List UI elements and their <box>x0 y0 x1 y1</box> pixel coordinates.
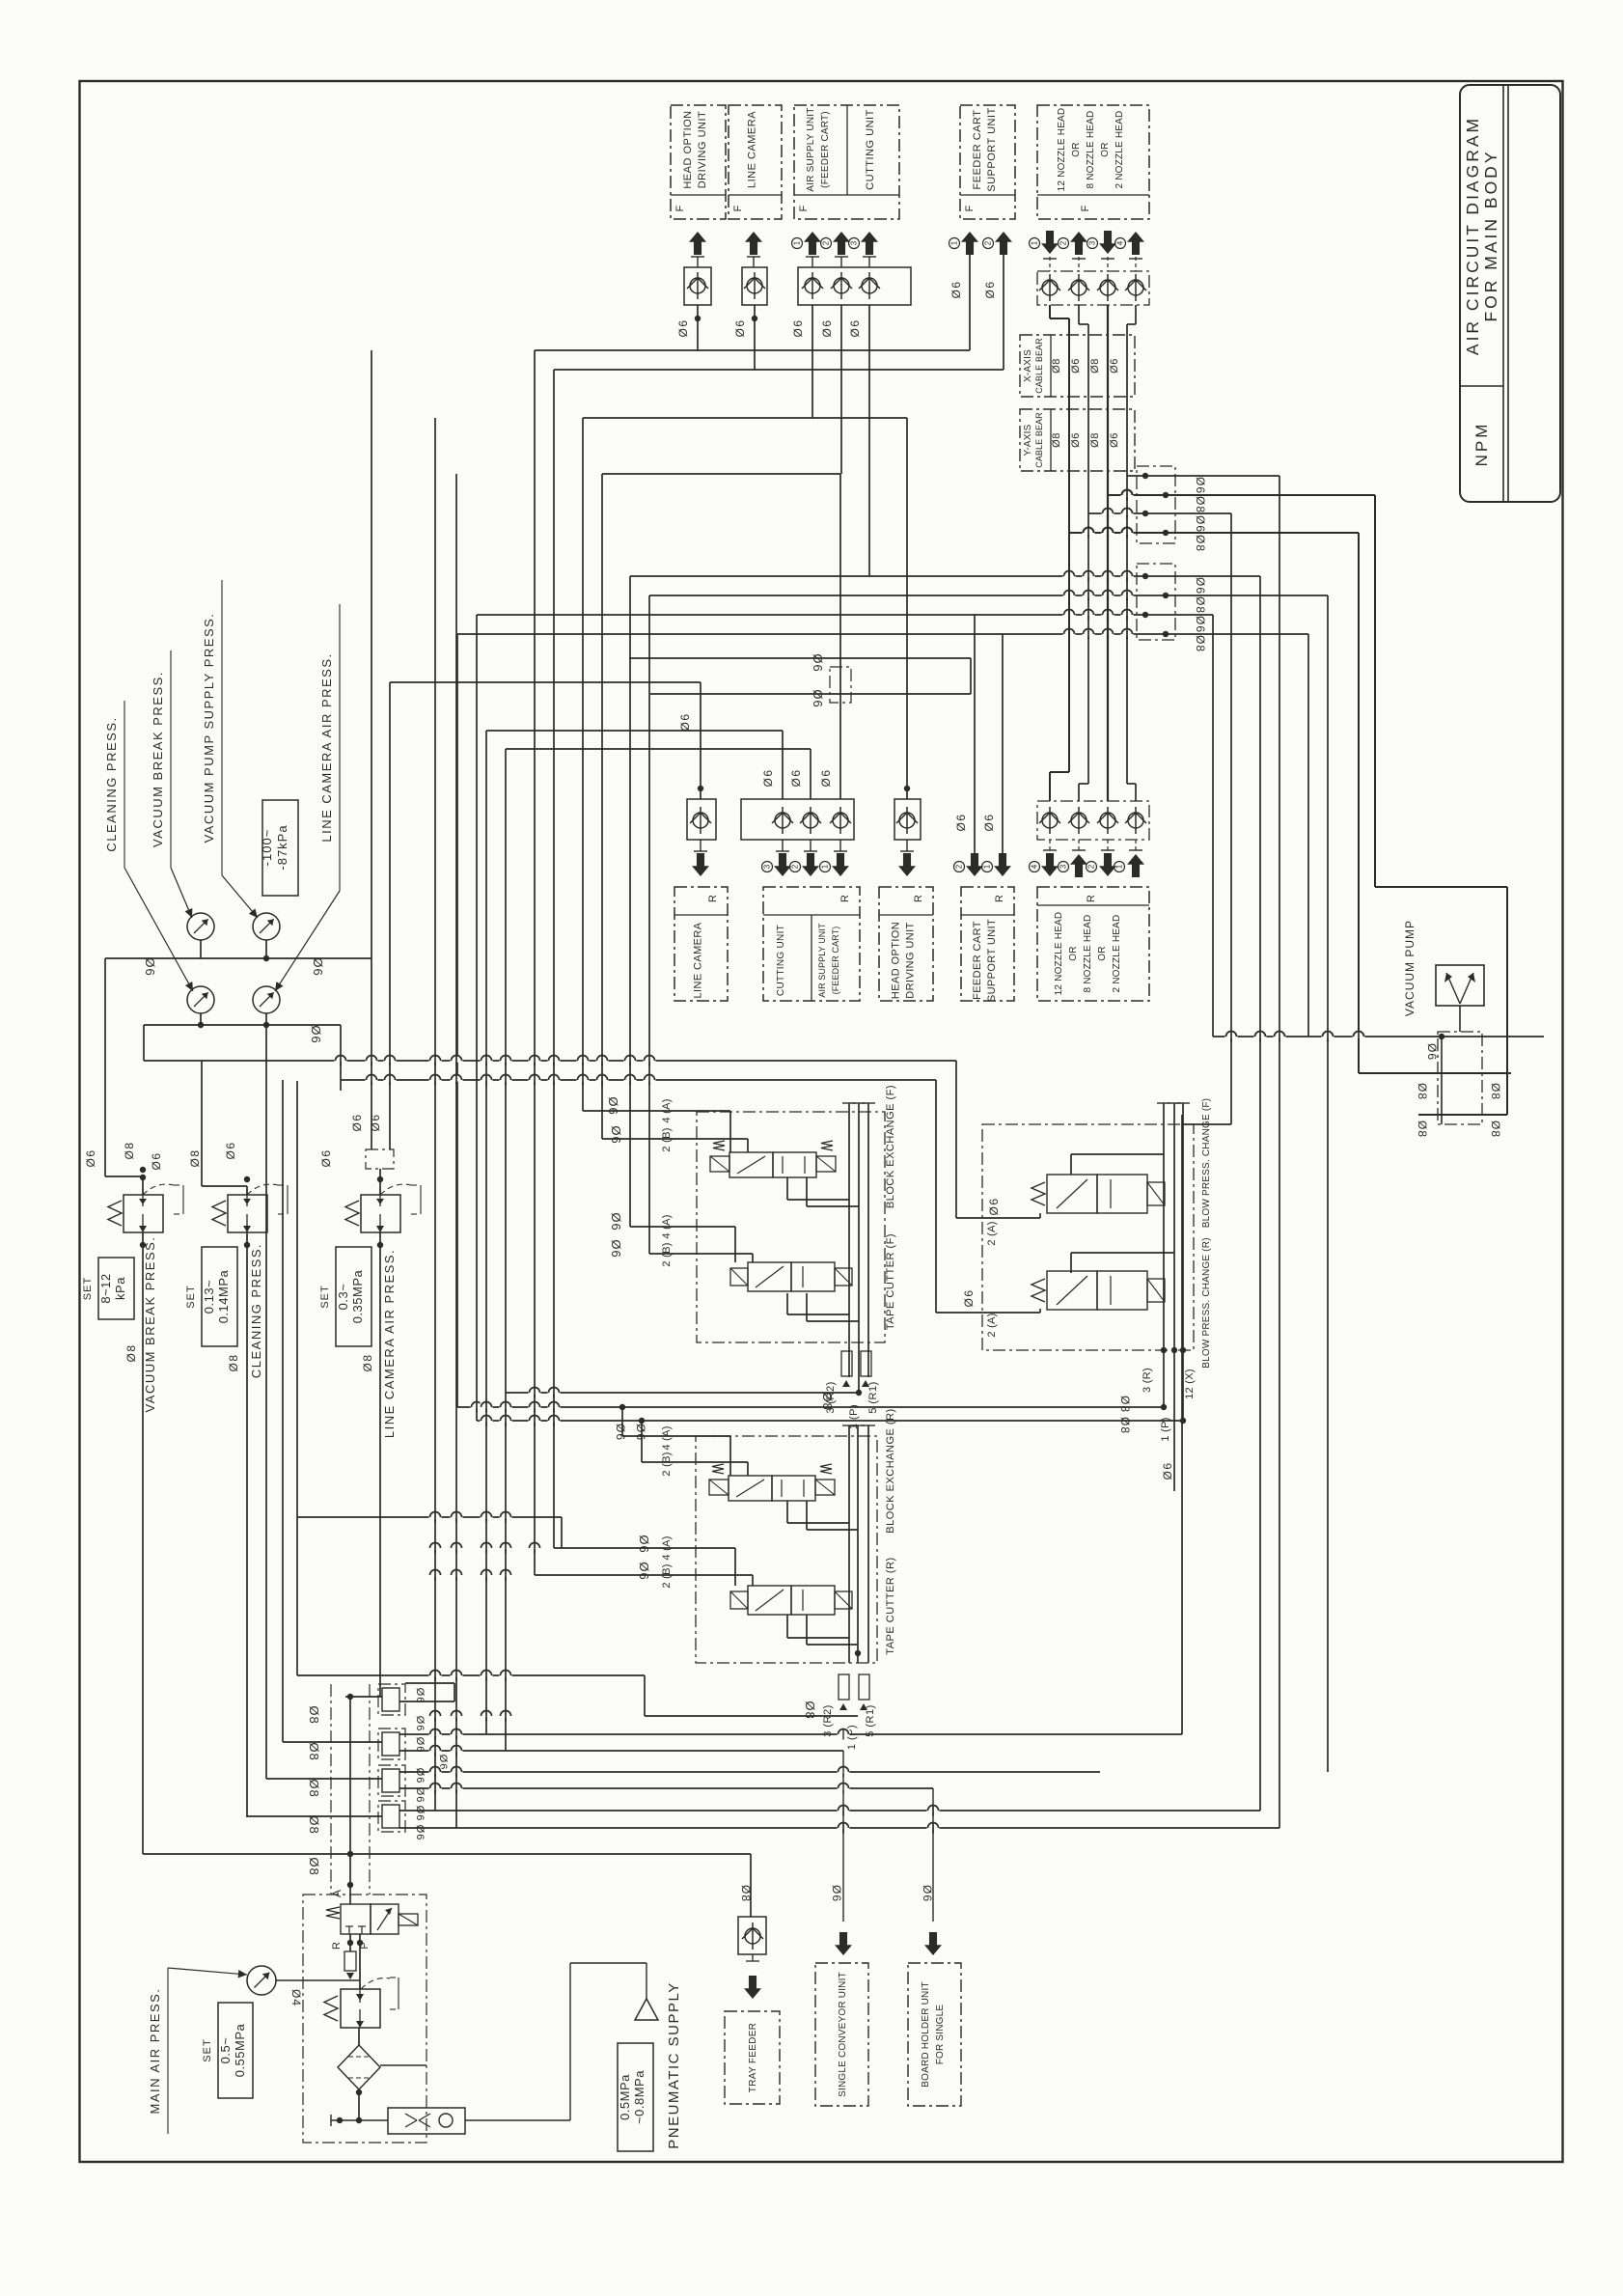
svg-text:DRIVING UNIT: DRIVING UNIT <box>905 922 917 998</box>
svg-text:Ø6: Ø6 <box>369 1113 382 1131</box>
svg-text:Ø6: Ø6 <box>1194 577 1207 595</box>
svg-text:R: R <box>1086 895 1097 902</box>
svg-text:Ø6: Ø6 <box>350 1113 364 1131</box>
svg-text:Ø6: Ø6 <box>414 1825 426 1841</box>
svg-text:VACUUM BREAK PRESS.: VACUUM BREAK PRESS. <box>143 1236 157 1413</box>
svg-text:Ø6: Ø6 <box>761 768 775 787</box>
svg-text:Ø8: Ø8 <box>739 1885 753 1902</box>
svg-text:Ø6: Ø6 <box>1194 515 1207 533</box>
svg-text:Ø8: Ø8 <box>1089 358 1101 373</box>
svg-text:BOARD HOLDER UNIT: BOARD HOLDER UNIT <box>921 1981 931 2088</box>
svg-text:2: 2 <box>791 864 800 869</box>
svg-text:SET: SET <box>202 2038 213 2061</box>
svg-text:12 (X): 12 (X) <box>1184 1369 1196 1399</box>
svg-text:4 (A): 4 (A) <box>661 1214 673 1238</box>
svg-text:F: F <box>674 205 686 211</box>
svg-text:Ø6: Ø6 <box>414 1768 426 1784</box>
svg-text:Ø6: Ø6 <box>987 1197 1001 1215</box>
svg-text:OR: OR <box>1100 142 1111 156</box>
svg-text:CABLE BEAR: CABLE BEAR <box>1034 412 1044 468</box>
svg-text:Ø8: Ø8 <box>1118 1396 1132 1413</box>
svg-text:Ø8: Ø8 <box>1051 432 1062 448</box>
svg-text:Ø8: Ø8 <box>307 1815 321 1834</box>
svg-text:Ø8: Ø8 <box>123 1141 136 1159</box>
svg-text:0.55MPa: 0.55MPa <box>233 2023 247 2077</box>
svg-text:R: R <box>331 1942 343 1950</box>
svg-text:Ø8: Ø8 <box>307 1742 321 1760</box>
svg-text:2 (A): 2 (A) <box>986 1313 998 1337</box>
svg-text:CABLE BEAR: CABLE BEAR <box>1034 338 1044 394</box>
svg-text:HEAD OPTION: HEAD OPTION <box>682 110 694 188</box>
svg-text:Y-AXIS: Y-AXIS <box>1023 424 1033 456</box>
svg-text:Ø6: Ø6 <box>1161 1461 1174 1480</box>
svg-text:0.3~: 0.3~ <box>336 1284 350 1311</box>
svg-text:MAIN AIR PRESS.: MAIN AIR PRESS. <box>148 1988 162 2115</box>
svg-text:Ø6: Ø6 <box>414 1737 426 1754</box>
svg-text:Ø6: Ø6 <box>319 1148 333 1167</box>
svg-text:Ø6: Ø6 <box>609 1125 623 1144</box>
svg-text:-100~: -100~ <box>260 829 274 867</box>
svg-text:Ø6: Ø6 <box>982 813 996 831</box>
svg-text:2 (B): 2 (B) <box>661 1563 673 1588</box>
svg-text:2: 2 <box>1087 864 1096 869</box>
svg-text:F: F <box>798 205 810 211</box>
svg-text:2 (B): 2 (B) <box>661 1452 673 1476</box>
svg-text:Ø8: Ø8 <box>227 1353 240 1371</box>
svg-text:Ø6: Ø6 <box>414 1787 426 1804</box>
svg-text:12 NOZZLE HEAD: 12 NOZZLE HEAD <box>1054 912 1064 996</box>
svg-text:Ø6: Ø6 <box>637 1535 651 1553</box>
svg-text:A: A <box>330 1890 344 1897</box>
svg-text:AIR SUPPLY UNIT: AIR SUPPLY UNIT <box>817 923 827 998</box>
svg-text:Ø6: Ø6 <box>1109 432 1120 448</box>
svg-text:AIR SUPPLY UNIT: AIR SUPPLY UNIT <box>806 107 816 191</box>
svg-text:BLOCK EXCHANGE (R): BLOCK EXCHANGE (R) <box>885 1408 896 1533</box>
svg-text:12 NOZZLE HEAD: 12 NOZZLE HEAD <box>1057 108 1067 192</box>
svg-text:Ø6: Ø6 <box>819 768 833 787</box>
svg-text:BLOW PRESS. CHANGE (R): BLOW PRESS. CHANGE (R) <box>1201 1237 1212 1369</box>
svg-text:VACUUM PUMP: VACUUM PUMP <box>1403 920 1417 1016</box>
svg-text:PNEUMATIC SUPPLY: PNEUMATIC SUPPLY <box>666 1981 682 2148</box>
svg-text:Ø6: Ø6 <box>414 1688 426 1704</box>
svg-text:Ø6: Ø6 <box>789 768 803 787</box>
svg-text:SET: SET <box>319 1285 331 1308</box>
svg-text:VACUUM PUMP SUPPLY PRESS.: VACUUM PUMP SUPPLY PRESS. <box>202 613 216 844</box>
svg-text:LINE CAMERA AIR PRESS.: LINE CAMERA AIR PRESS. <box>382 1249 397 1438</box>
svg-text:Ø8: Ø8 <box>1489 1083 1502 1100</box>
svg-text:0.35MPa: 0.35MPa <box>350 1269 365 1323</box>
svg-text:Ø6: Ø6 <box>606 1096 620 1115</box>
svg-text:Ø6: Ø6 <box>733 318 747 337</box>
svg-text:Ø6: Ø6 <box>791 318 805 337</box>
svg-text:1: 1 <box>950 240 959 245</box>
svg-text:4 (A): 4 (A) <box>661 1425 673 1450</box>
svg-text:Ø6: Ø6 <box>150 1151 163 1170</box>
svg-text:Ø6: Ø6 <box>1070 358 1082 373</box>
svg-text:0.13~: 0.13~ <box>202 1280 216 1314</box>
svg-text:0.14MPa: 0.14MPa <box>216 1269 231 1323</box>
svg-text:4 (A): 4 (A) <box>661 1098 673 1122</box>
svg-text:Ø8: Ø8 <box>1194 496 1207 513</box>
svg-text:LINE CAMERA: LINE CAMERA <box>747 111 758 188</box>
svg-text:Ø6: Ø6 <box>921 1885 934 1902</box>
svg-text:2: 2 <box>955 864 964 869</box>
svg-text:CUTTING UNIT: CUTTING UNIT <box>776 925 786 996</box>
svg-text:Ø8: Ø8 <box>1489 1120 1502 1138</box>
svg-text:Ø8: Ø8 <box>307 1705 321 1724</box>
svg-text:Ø8: Ø8 <box>124 1343 138 1362</box>
svg-text:Ø6: Ø6 <box>830 1885 843 1902</box>
svg-text:2: 2 <box>1059 240 1068 245</box>
svg-text:F: F <box>1080 205 1091 211</box>
svg-text:3: 3 <box>1088 240 1097 245</box>
svg-text:4: 4 <box>1116 240 1125 245</box>
svg-text:Ø6: Ø6 <box>414 1716 426 1732</box>
svg-text:BLOW PRESS. CHANGE (F): BLOW PRESS. CHANGE (F) <box>1201 1098 1212 1228</box>
svg-text:8 NOZZLE HEAD: 8 NOZZLE HEAD <box>1086 111 1096 189</box>
svg-text:Ø6: Ø6 <box>609 1239 623 1258</box>
svg-text:Ø8: Ø8 <box>1416 1083 1429 1100</box>
svg-text:Ø6: Ø6 <box>637 1562 651 1580</box>
svg-text:F: F <box>732 205 744 211</box>
svg-text:1: 1 <box>1115 864 1124 869</box>
svg-text:(FEEDER CART): (FEEDER CART) <box>831 927 840 995</box>
svg-text:8 NOZZLE HEAD: 8 NOZZLE HEAD <box>1083 915 1093 993</box>
svg-text:NPM: NPM <box>1472 422 1491 467</box>
svg-text:Ø8: Ø8 <box>1194 535 1207 552</box>
svg-text:2: 2 <box>984 240 993 245</box>
svg-text:BLOCK EXCHANGE (F): BLOCK EXCHANGE (F) <box>885 1085 896 1208</box>
svg-text:Ø8: Ø8 <box>1051 358 1062 373</box>
svg-text:Ø6: Ø6 <box>1194 616 1207 633</box>
svg-text:Ø8: Ø8 <box>1416 1120 1429 1138</box>
svg-text:0.5MPa: 0.5MPa <box>618 2074 632 2120</box>
svg-text:SUPPORT UNIT: SUPPORT UNIT <box>986 919 998 1002</box>
svg-text:2: 2 <box>822 240 831 245</box>
svg-text:3: 3 <box>763 864 772 869</box>
svg-text:Ø8: Ø8 <box>1194 635 1207 652</box>
svg-text:VACUUM BREAK PRESS.: VACUUM BREAK PRESS. <box>151 671 165 847</box>
svg-text:5 (R1): 5 (R1) <box>865 1704 876 1737</box>
svg-text:2 NOZZLE HEAD: 2 NOZZLE HEAD <box>1114 111 1125 189</box>
svg-text:Ø4: Ø4 <box>289 1989 303 2006</box>
svg-text:OR: OR <box>1097 946 1108 960</box>
svg-text:3: 3 <box>1059 864 1068 869</box>
svg-text:3: 3 <box>850 240 859 245</box>
svg-text:2 (B): 2 (B) <box>661 1127 673 1151</box>
svg-text:3 (R): 3 (R) <box>1142 1368 1153 1393</box>
svg-text:Ø6: Ø6 <box>84 1148 97 1167</box>
svg-text:4: 4 <box>1031 864 1039 869</box>
svg-text:SET: SET <box>82 1277 94 1300</box>
svg-text:Ø6: Ø6 <box>609 1212 623 1231</box>
svg-text:Ø6: Ø6 <box>1109 358 1120 373</box>
svg-text:1: 1 <box>1031 240 1039 245</box>
svg-text:OR: OR <box>1071 142 1082 156</box>
svg-text:1: 1 <box>983 864 992 869</box>
svg-text:TAPE CUTTER (F): TAPE CUTTER (F) <box>885 1233 896 1330</box>
svg-text:Ø6: Ø6 <box>678 712 692 731</box>
svg-text:R: R <box>994 895 1005 902</box>
svg-text:Ø6: Ø6 <box>1194 477 1207 494</box>
svg-text:Ø6: Ø6 <box>311 957 325 976</box>
svg-text:Ø6: Ø6 <box>848 318 862 337</box>
svg-text:5 (R1): 5 (R1) <box>867 1381 879 1414</box>
svg-text:1 (P): 1 (P) <box>846 1725 858 1750</box>
svg-text:F: F <box>964 205 976 211</box>
svg-text:FOR SINGLE: FOR SINGLE <box>935 2005 946 2065</box>
svg-text:LINE CAMERA: LINE CAMERA <box>693 922 704 998</box>
svg-text:Ø8: Ø8 <box>307 1857 321 1875</box>
svg-text:2 NOZZLE HEAD: 2 NOZZLE HEAD <box>1112 915 1122 993</box>
svg-text:Ø8: Ø8 <box>361 1353 374 1371</box>
svg-text:AIR CIRCUIT DIAGRAM: AIR CIRCUIT DIAGRAM <box>1463 116 1482 355</box>
svg-text:2 (B): 2 (B) <box>661 1242 673 1266</box>
svg-text:2 (A): 2 (A) <box>986 1221 998 1245</box>
svg-text:~0.8MPa: ~0.8MPa <box>632 2070 646 2124</box>
svg-text:Ø6: Ø6 <box>983 280 997 298</box>
svg-text:SINGLE CONVEYOR UINIT: SINGLE CONVEYOR UINIT <box>838 1972 848 2097</box>
svg-text:Ø6: Ø6 <box>811 653 825 672</box>
svg-text:Ø6: Ø6 <box>614 1424 627 1441</box>
svg-text:HEAD OPTION: HEAD OPTION <box>891 922 902 999</box>
svg-text:Ø6: Ø6 <box>811 689 825 707</box>
svg-text:Ø8: Ø8 <box>803 1701 817 1719</box>
svg-text:R: R <box>707 895 719 902</box>
svg-text:R: R <box>913 895 924 902</box>
svg-text:Ø6: Ø6 <box>309 1025 323 1043</box>
svg-text:Ø6: Ø6 <box>962 1288 976 1307</box>
svg-text:CLEANING PRESS.: CLEANING PRESS. <box>104 716 119 851</box>
svg-text:1: 1 <box>821 864 830 869</box>
svg-text:SET: SET <box>185 1285 197 1308</box>
svg-text:Ø6: Ø6 <box>143 957 157 976</box>
svg-text:CUTTING UNIT: CUTTING UNIT <box>865 109 876 190</box>
svg-text:CLEANING PRESS.: CLEANING PRESS. <box>249 1243 263 1378</box>
svg-text:TAPE CUTTER (R): TAPE CUTTER (R) <box>885 1557 896 1654</box>
svg-text:Ø6: Ø6 <box>676 318 690 337</box>
svg-text:OR: OR <box>1068 946 1079 960</box>
svg-text:SUPPORT UNIT: SUPPORT UNIT <box>986 107 998 192</box>
svg-text:Ø6: Ø6 <box>1070 432 1082 448</box>
svg-text:FOR MAIN BODY: FOR MAIN BODY <box>1481 149 1500 321</box>
svg-text:Ø6: Ø6 <box>1425 1043 1439 1061</box>
svg-text:8~12: 8~12 <box>98 1273 113 1303</box>
svg-text:Ø8: Ø8 <box>1089 432 1101 448</box>
svg-text:Ø6: Ø6 <box>949 280 963 298</box>
svg-text:FEEDER CART: FEEDER CART <box>972 110 983 190</box>
svg-text:Ø8: Ø8 <box>1118 1417 1132 1434</box>
svg-text:1: 1 <box>793 240 802 245</box>
svg-text:LINE CAMERA AIR PRESS.: LINE CAMERA AIR PRESS. <box>319 652 334 842</box>
svg-text:Ø6: Ø6 <box>634 1424 647 1441</box>
svg-text:FEEDER CART: FEEDER CART <box>972 921 983 1000</box>
svg-text:(FEEDER CART): (FEEDER CART) <box>820 111 831 188</box>
svg-text:Ø8: Ø8 <box>307 1779 321 1797</box>
svg-text:Ø6: Ø6 <box>954 813 968 831</box>
svg-text:Ø6: Ø6 <box>224 1141 237 1159</box>
svg-text:X-AXIS: X-AXIS <box>1023 349 1033 382</box>
svg-text:Ø8: Ø8 <box>188 1148 202 1167</box>
svg-text:kPa: kPa <box>113 1277 127 1300</box>
svg-text:TRAY FEEDER: TRAY FEEDER <box>748 2023 758 2092</box>
svg-text:0.5~: 0.5~ <box>218 2037 233 2064</box>
svg-text:4 (A): 4 (A) <box>661 1535 673 1560</box>
svg-text:-87kPa: -87kPa <box>275 824 289 870</box>
svg-text:Ø6: Ø6 <box>820 318 834 337</box>
svg-text:Ø6: Ø6 <box>414 1806 426 1822</box>
svg-text:DRIVING UNIT: DRIVING UNIT <box>697 111 708 189</box>
svg-text:Ø8: Ø8 <box>1194 596 1207 614</box>
svg-text:3 (R2): 3 (R2) <box>822 1704 834 1737</box>
svg-text:R: R <box>839 895 851 902</box>
